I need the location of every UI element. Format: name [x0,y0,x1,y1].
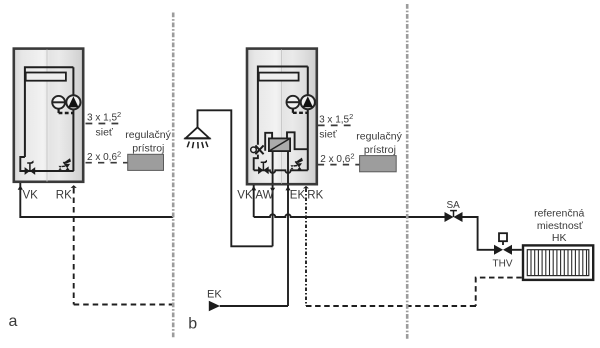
svg-text:AW: AW [255,190,273,202]
svg-text:SA: SA [447,200,461,211]
svg-text:RK: RK [56,190,72,202]
svg-text:prístroj: prístroj [364,144,396,156]
svg-text:VK: VK [237,190,253,202]
svg-text:HK: HK [552,232,567,244]
svg-text:a: a [9,313,18,330]
svg-text:2 x 0,62: 2 x 0,62 [320,151,354,165]
svg-text:2 x 0,62: 2 x 0,62 [87,150,121,164]
svg-text:VK: VK [23,190,39,202]
svg-text:miestnosť: miestnosť [537,220,584,232]
svg-text:regulačný: regulačný [125,129,171,141]
svg-text:prístroj: prístroj [132,143,164,155]
svg-text:EK: EK [207,288,222,300]
svg-text:sieť: sieť [96,126,114,138]
svg-text:3 x 1,52: 3 x 1,52 [319,112,353,126]
svg-text:regulačný: regulačný [356,130,402,142]
svg-text:THV: THV [493,259,513,270]
svg-text:b: b [188,316,197,333]
svg-text:EK: EK [290,190,306,202]
svg-text:RK: RK [307,190,323,202]
svg-text:3 x 1,52: 3 x 1,52 [87,110,121,124]
svg-text:sieť: sieť [319,128,337,140]
svg-text:referenčná: referenčná [534,208,584,220]
